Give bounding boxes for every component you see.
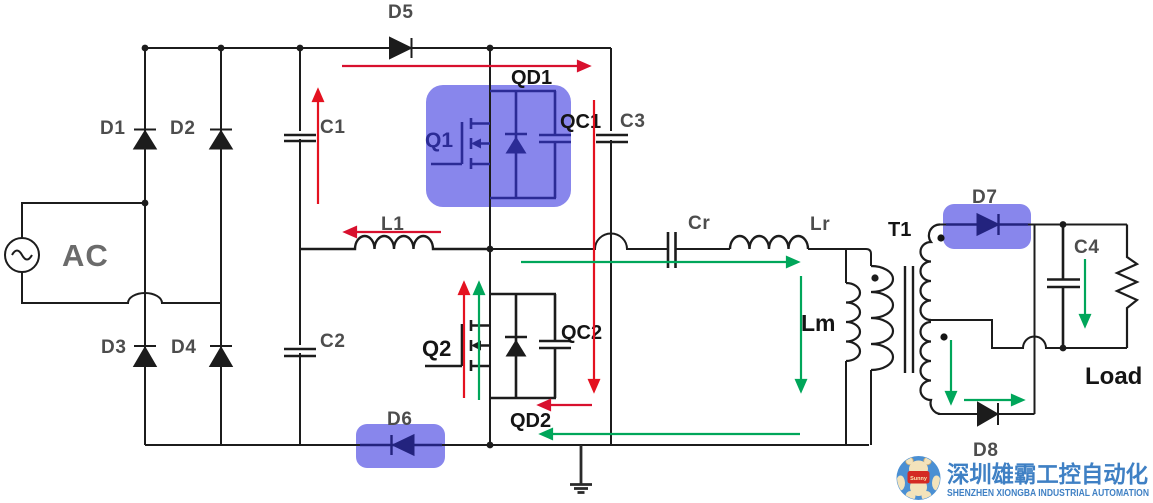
wire Cr to Lr (676, 248, 730, 250)
diode D6 (360, 435, 442, 455)
body diode QD1 (490, 91, 556, 198)
transformer T1 core (905, 266, 913, 373)
node secondary bottom polarity dot (940, 333, 947, 340)
svg-text:C3: C3 (620, 111, 646, 132)
svg-text:Lm: Lm (801, 310, 836, 336)
inductor Lr (730, 236, 808, 249)
current arrow red Q2 up (459, 283, 469, 398)
MOSFET Q2 (425, 320, 490, 371)
wire AC bottom lead with hop over left leg (22, 272, 221, 303)
current arrow red L1 left (345, 227, 441, 237)
highlight box D6 (356, 424, 445, 468)
svg-text:QD2: QD2 (510, 410, 551, 432)
wire Lr to transformer (808, 248, 866, 250)
svg-text:D7: D7 (972, 187, 998, 208)
wire D7/D8 cathode link (1034, 225, 1036, 415)
node C4 bottom junction (1060, 345, 1067, 352)
transformer T1 secondary winding top (921, 224, 940, 320)
capacitor QC2 (539, 294, 571, 398)
transformer T1 primary winding (871, 266, 893, 370)
wire bottom rail (145, 444, 869, 446)
capacitor Cr (668, 232, 676, 268)
svg-text:D5: D5 (388, 2, 414, 23)
node bottom rail / center leg (487, 442, 494, 449)
current arrow green C4 down (1080, 259, 1090, 326)
wire right top branch C3 leg (610, 48, 612, 445)
svg-text:C4: C4 (1074, 237, 1100, 258)
current arrow red C1 up (313, 90, 323, 204)
current arrow green secondary down (946, 340, 956, 403)
capacitor C3 (596, 131, 628, 142)
svg-text:D2: D2 (170, 118, 196, 139)
svg-text:Load: Load (1085, 363, 1142, 390)
wire left bridge leg (D1/D3) (144, 48, 146, 445)
wire T1 primary drops (866, 249, 871, 445)
current arrow crimson QD2 left (539, 400, 592, 410)
wire Lm branch vertical (845, 249, 847, 445)
svg-text:深圳雄霸工控自动化: 深圳雄霸工控自动化 (947, 461, 1148, 487)
diode D1 (134, 130, 156, 149)
wire center tap to output bottom rail with hop (931, 320, 1127, 348)
diode D7 (946, 214, 1028, 235)
inductor Lm (846, 283, 860, 361)
diode D2 (210, 130, 232, 149)
svg-text:AC: AC (62, 238, 109, 273)
svg-text:D1: D1 (100, 118, 126, 139)
svg-text:D6: D6 (387, 409, 413, 430)
current arrow green Q2 up (474, 283, 484, 400)
diode D5 (390, 38, 412, 58)
AC source (5, 238, 39, 272)
svg-text:Lr: Lr (810, 214, 830, 235)
wire AC top lead (22, 203, 145, 238)
capacitor QC1 (539, 91, 571, 198)
svg-text:SHENZHEN XIONGBA INDUSTRIAL AU: SHENZHEN XIONGBA INDUSTRIAL AUTOMATION (947, 488, 1149, 499)
svg-text:Q1: Q1 (425, 129, 453, 152)
diode D3 (134, 346, 156, 366)
current arrow red top rail (342, 61, 589, 71)
MOSFET Q1 (431, 118, 490, 169)
wire secondary top to D7 and output top rail (938, 224, 1127, 226)
wire center leg through Q1 and Q2 (489, 48, 491, 445)
capacitor C2 (284, 345, 316, 356)
svg-text:D8: D8 (973, 440, 999, 461)
svg-text:Sunny: Sunny (910, 476, 928, 482)
highlight box D7 (943, 204, 1031, 249)
node top rail / center leg (487, 45, 494, 52)
node primary polarity dot (871, 274, 878, 281)
node top rail / C1 leg (297, 45, 304, 52)
node C4 top junction (1060, 221, 1067, 228)
node secondary top polarity dot (937, 234, 944, 241)
svg-text:QD1: QD1 (511, 67, 552, 89)
highlight box Q1 group (426, 85, 571, 207)
current arrow red long down (589, 100, 599, 391)
svg-text:C2: C2 (320, 331, 346, 352)
inductor L1 (300, 236, 490, 249)
capacitor C1 (284, 131, 316, 141)
svg-text:Q2: Q2 (422, 336, 451, 361)
svg-text:C1: C1 (320, 117, 346, 138)
wire top rail (145, 47, 611, 49)
body diode QD2 (490, 294, 556, 398)
node L1 / center leg (487, 246, 494, 253)
svg-text:D4: D4 (171, 337, 197, 358)
svg-text:T1: T1 (888, 219, 911, 241)
resistor Load (1117, 225, 1137, 349)
node top rail / second leg (218, 45, 225, 52)
wire D8 output (938, 413, 1035, 415)
wire second bridge leg (D2/D4) (220, 48, 222, 445)
diode D8 (978, 403, 998, 425)
logo mascot (896, 456, 941, 501)
current arrow green bottom left (541, 429, 800, 439)
transformer T1 secondary winding bottom (921, 322, 940, 414)
node AC top junction (142, 200, 149, 207)
wire C1/C2 leg (299, 48, 301, 445)
capacitor C4 (1047, 225, 1080, 349)
node top rail / left leg (142, 45, 149, 52)
svg-text:D3: D3 (101, 337, 127, 358)
current arrow green resonant right (521, 257, 798, 267)
svg-text:QC2: QC2 (561, 322, 602, 344)
ground (570, 445, 592, 493)
diode D4 (210, 346, 232, 366)
current arrow green D8 right (964, 395, 1023, 405)
wire L1 node to Cr with hop over C3 leg (490, 234, 667, 250)
svg-text:Cr: Cr (688, 213, 711, 234)
current arrow green Lm down (796, 276, 806, 391)
